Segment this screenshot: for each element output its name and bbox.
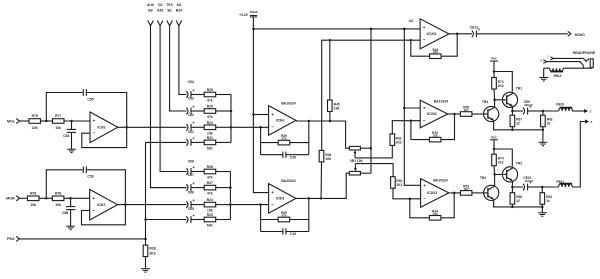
wire IC10/1 minus net from mixers xyxy=(322,39,420,152)
svg-text:2K2: 2K2 xyxy=(498,161,504,165)
svg-text:TR3: TR3 xyxy=(482,100,488,104)
wire IC9/4 feedback loop xyxy=(261,121,309,155)
wire top bias rail to IC10/1 + xyxy=(253,28,420,31)
wire IC9/2 minus feedback loop xyxy=(82,205,126,225)
wire CE10 to FB11 xyxy=(542,186,558,188)
ferrite bead FB12 xyxy=(550,68,564,78)
node IC9/1 output xyxy=(125,126,128,129)
svg-text:2K2: 2K2 xyxy=(396,183,402,187)
wire input 4Ω down to bank row xyxy=(179,26,187,95)
svg-text:4k7: 4k7 xyxy=(464,108,469,112)
svg-text:FB11: FB11 xyxy=(556,180,564,184)
wire CE13 to MONO output xyxy=(476,33,567,35)
headphone jack contact 1 xyxy=(547,55,553,60)
resistor R27 47k xyxy=(204,181,230,195)
svg-text:C62: C62 xyxy=(188,113,194,117)
capacitor C61 xyxy=(186,130,204,146)
wire TR3 collector to TR1 base node xyxy=(493,99,506,108)
svg-text:−: − xyxy=(423,196,426,201)
svg-text:+: + xyxy=(93,119,96,124)
potentiometer VR1 element B xyxy=(349,171,371,175)
svg-text:PSO: PSO xyxy=(7,237,15,241)
transistor TR3 xyxy=(482,100,499,121)
resistor R33 15k xyxy=(429,131,441,142)
svg-text:TEX: TEX xyxy=(166,3,173,7)
op-amp IC9/1 xyxy=(90,112,118,143)
svg-text:B1: B1 xyxy=(167,9,171,13)
wire IC10/1 output to CE13 xyxy=(449,33,472,36)
ground under C54 xyxy=(67,149,76,152)
wire Vcc to TR1 collector xyxy=(494,72,512,92)
svg-text:BA10324: BA10324 xyxy=(434,100,448,104)
headphone jack tip lines xyxy=(547,58,589,65)
svg-text:B29: B29 xyxy=(176,9,182,13)
wire to ground top channel xyxy=(542,130,544,143)
resistor R38 22 xyxy=(510,187,522,207)
svg-text:BA10324: BA10324 xyxy=(433,178,447,182)
svg-text:R76: R76 xyxy=(30,192,36,196)
wire IC10/3 feedback loop xyxy=(410,193,454,218)
input connector TEX B1 xyxy=(166,3,173,26)
svg-text:−: − xyxy=(271,202,274,207)
resistor R30 47k xyxy=(278,211,290,222)
wire MOL to R75 xyxy=(19,120,29,122)
svg-text:IC9/1: IC9/1 xyxy=(97,126,105,130)
svg-text:1k: 1k xyxy=(547,122,551,126)
headphone jack sleeve xyxy=(590,59,593,68)
svg-text:R24: R24 xyxy=(207,198,213,202)
wire FB10 to jack pin 2 xyxy=(572,109,591,114)
wire IC10/2 feedback loop xyxy=(411,114,455,140)
op-amp IC10/1 U3 xyxy=(409,19,449,49)
svg-text:TR1: TR1 xyxy=(516,87,522,91)
wire bank2 row4 from PSO riser xyxy=(146,219,187,221)
svg-text:C64: C64 xyxy=(188,80,194,84)
svg-text:2K2: 2K2 xyxy=(149,252,155,256)
power Vcc top xyxy=(490,57,498,78)
svg-text:A29: A29 xyxy=(157,9,163,13)
svg-text:22: 22 xyxy=(516,199,520,203)
wire feedback top C53 loop xyxy=(46,170,125,205)
op-amp IC9/2 xyxy=(90,189,118,220)
wire IC10/2 output to R50 xyxy=(448,113,460,116)
capacitor C19 xyxy=(283,228,296,236)
capacitor C56 xyxy=(62,198,75,226)
capacitor CE10 220uF xyxy=(523,176,544,190)
op-amp IC10/2 BA10324 xyxy=(420,100,448,128)
wire feedback top C55 loop xyxy=(46,93,126,128)
svg-text:47k: 47k xyxy=(281,137,286,141)
capacitor C62 xyxy=(186,113,204,131)
wire R77 to op-amp + with node xyxy=(64,120,90,123)
resistor R26 47k xyxy=(204,88,231,102)
capacitor C55 xyxy=(83,89,93,102)
svg-text:CD: CD xyxy=(158,3,163,7)
wire TR1 emitter to output node xyxy=(511,106,513,111)
svg-text:22: 22 xyxy=(516,122,520,126)
wiper VR1 B xyxy=(354,164,393,177)
wire TR2 emitter to output node xyxy=(511,181,513,187)
wire bias to IC9/4 + xyxy=(253,114,268,116)
resistor R25 47k xyxy=(204,105,231,119)
svg-text:R28: R28 xyxy=(207,165,213,169)
op-amp IC9/4 BA10324 xyxy=(269,101,296,135)
ferrite bead FB11 xyxy=(556,180,572,187)
input connector 4Ω B29 xyxy=(176,3,182,26)
svg-text:+: + xyxy=(271,190,274,195)
svg-text:MOL: MOL xyxy=(7,119,16,123)
svg-text:IC9/4: IC9/4 xyxy=(276,119,284,123)
resistor R22 15k xyxy=(204,121,231,135)
input connector AUX B3 xyxy=(147,3,155,26)
svg-text:2K2: 2K2 xyxy=(498,84,504,88)
wire input AUX down to bank row xyxy=(151,26,187,188)
transistor TR2 xyxy=(502,161,522,182)
svg-text:C61: C61 xyxy=(188,130,194,134)
capacitor C63 xyxy=(186,96,204,114)
wire IC9/3 feedback loop xyxy=(261,198,309,231)
ferrite bead FB10 xyxy=(556,103,572,112)
wire PSO riser to bank rows xyxy=(144,142,147,239)
svg-text:AUX: AUX xyxy=(147,3,155,7)
svg-text:MOR: MOR xyxy=(6,197,15,201)
svg-text:+: + xyxy=(423,183,426,188)
resistor R51 4k7 xyxy=(460,185,472,196)
svg-text:+: + xyxy=(271,112,274,117)
capacitor C66 xyxy=(186,190,204,208)
wire R50 to TR3 base xyxy=(472,113,484,115)
power Vcc bottom xyxy=(490,135,498,154)
headphone jack body line xyxy=(544,65,592,68)
output MONO xyxy=(568,31,585,37)
resistor R74 2K2 xyxy=(492,154,504,174)
svg-text:51K: 51K xyxy=(207,224,214,228)
svg-text:51K: 51K xyxy=(207,146,214,150)
svg-text:Vcc: Vcc xyxy=(491,57,497,61)
wire bank1 summing bus xyxy=(230,95,233,143)
svg-text:R22: R22 xyxy=(207,121,213,125)
svg-text:10K: 10K xyxy=(334,106,341,110)
resistor R29 47k xyxy=(278,134,290,145)
resistor R37 22 xyxy=(510,111,522,130)
resistor R76 10k xyxy=(28,192,40,208)
svg-text:10K: 10K xyxy=(325,157,332,161)
svg-text:FB10: FB10 xyxy=(556,103,564,107)
wire MOR to R76 xyxy=(19,197,27,199)
svg-text:15k: 15k xyxy=(207,131,213,135)
op-amp IC10/3 BA10324 xyxy=(421,178,449,207)
svg-text:C26: C26 xyxy=(290,155,296,159)
ground headphone jack xyxy=(539,78,548,81)
svg-text:−: − xyxy=(93,131,96,136)
svg-text:C65: C65 xyxy=(188,207,194,211)
svg-text:R27: R27 xyxy=(207,181,213,185)
ground bottom channel xyxy=(538,213,547,216)
svg-text:CE13: CE13 xyxy=(470,25,478,29)
wire bias rail to pot ends xyxy=(370,29,372,173)
svg-text:15k: 15k xyxy=(207,209,213,213)
svg-text:4Ω: 4Ω xyxy=(177,3,182,7)
svg-text:47k: 47k xyxy=(207,99,213,103)
svg-text:IC10/3: IC10/3 xyxy=(427,191,437,195)
wire to IC10/2 + input xyxy=(404,107,420,109)
svg-text:C63: C63 xyxy=(188,96,194,100)
svg-text:+3.3V: +3.3V xyxy=(239,13,249,17)
resistor R45 10K xyxy=(328,40,341,121)
capacitor C26 xyxy=(283,152,296,160)
wire input CD down to bank row xyxy=(160,26,186,172)
wire bank1 bus to IC9/4 - xyxy=(231,126,269,129)
transistor TR1 xyxy=(502,87,522,108)
svg-text:HEADPHONE: HEADPHONE xyxy=(573,51,596,55)
svg-text:IC9/2: IC9/2 xyxy=(97,203,105,207)
svg-text:220uF: 220uF xyxy=(524,103,533,107)
svg-text:BA10324: BA10324 xyxy=(281,101,295,105)
wire Vcc to TR2 collector xyxy=(494,149,512,166)
svg-text:IC9/3: IC9/3 xyxy=(276,197,284,201)
capacitor C67 xyxy=(186,173,204,191)
headphone jack contact 2 xyxy=(540,58,546,63)
wire R75 to R77 with node xyxy=(41,120,53,123)
wire bank2 rows from inputs xyxy=(151,172,187,188)
wire IC9/3 output xyxy=(296,173,349,199)
resistor R46 10K xyxy=(319,150,332,198)
wiper VR1 A xyxy=(354,146,393,158)
svg-text:R21: R21 xyxy=(207,136,213,140)
potentiometer VR1 element A xyxy=(349,146,372,150)
wire FB11 to jack pin 3 xyxy=(572,120,592,188)
resistor R43 1k xyxy=(540,187,552,207)
svg-text:IC10/1: IC10/1 xyxy=(427,32,437,36)
resistor R34 15k xyxy=(429,209,441,220)
capacitor CE13 xyxy=(470,25,481,37)
wire bank2 bus to IC9/3 - xyxy=(230,203,268,206)
label HEADPHONE xyxy=(573,51,596,55)
capacitor C65 xyxy=(186,207,204,223)
power +3.3V 100uF xyxy=(239,10,258,17)
svg-text:BA10324: BA10324 xyxy=(281,179,295,183)
svg-text:2K2: 2K2 xyxy=(396,140,402,144)
svg-text:15k: 15k xyxy=(433,134,438,138)
input PSO xyxy=(7,236,19,241)
svg-text:VR1 10k: VR1 10k xyxy=(350,159,363,163)
svg-text:TR4: TR4 xyxy=(480,176,486,180)
svg-text:R26: R26 xyxy=(207,88,213,92)
op-amp IC9/3 BA10324 xyxy=(269,179,296,213)
svg-text:B3: B3 xyxy=(148,9,152,13)
resistor R75 10K xyxy=(29,114,41,130)
resistor R23 51K xyxy=(204,213,230,227)
wire TR4 collector to TR2 base node xyxy=(493,173,506,186)
svg-text:C54: C54 xyxy=(63,134,69,138)
svg-text:R77: R77 xyxy=(55,114,61,118)
svg-text:47k: 47k xyxy=(207,115,213,119)
resistor R44 10k xyxy=(430,48,442,59)
svg-text:−: − xyxy=(423,37,426,42)
svg-text:R23: R23 xyxy=(207,213,213,217)
svg-text:TR2: TR2 xyxy=(516,161,522,165)
svg-text:10k: 10k xyxy=(55,203,61,207)
wire IC9/2 out to bank2 row3 xyxy=(118,204,187,206)
resistor R42 1k xyxy=(541,111,553,130)
input connector CD A29 xyxy=(157,3,163,26)
svg-text:C67: C67 xyxy=(188,173,194,177)
svg-text:−: − xyxy=(92,208,95,213)
svg-text:10K: 10K xyxy=(32,126,39,130)
svg-text:−: − xyxy=(423,118,426,123)
wire bottom output line xyxy=(511,186,523,189)
wire TR3 emitter rail xyxy=(494,121,545,131)
node IC9/2 output xyxy=(124,203,127,206)
wire IC10/3 output to R51 xyxy=(449,192,460,195)
svg-text:47k: 47k xyxy=(207,176,213,180)
ground top channel xyxy=(539,142,548,145)
wire R76 to R78 with node xyxy=(39,197,53,200)
wire IC9/1 out to bank1 row3 xyxy=(118,126,187,128)
svg-text:R75: R75 xyxy=(32,114,38,118)
wire R51 to TR4 base xyxy=(472,192,484,194)
ground under R39 xyxy=(141,269,150,272)
svg-text:Vcc: Vcc xyxy=(491,135,497,139)
svg-text:C55: C55 xyxy=(87,98,93,102)
svg-text:C68: C68 xyxy=(188,159,194,163)
svg-text:C66: C66 xyxy=(188,190,194,194)
label VR1 10k xyxy=(350,159,363,163)
capacitor C54 xyxy=(63,121,76,149)
capacitor C53 xyxy=(83,166,93,178)
resistor R24 15k xyxy=(204,198,230,212)
svg-text:R25: R25 xyxy=(207,105,213,109)
svg-text:47k: 47k xyxy=(281,214,286,218)
svg-text:100uF: 100uF xyxy=(249,10,258,14)
svg-text:1k: 1k xyxy=(546,199,550,203)
input MOL xyxy=(7,118,19,123)
wire IC9/1 minus feedback loop xyxy=(82,127,127,147)
wire bias to IC10/2 + xyxy=(403,29,421,185)
wire +3.3V rail vertical xyxy=(252,17,268,192)
svg-text:+: + xyxy=(423,106,426,111)
wire top output line xyxy=(511,110,523,113)
svg-text:47k: 47k xyxy=(207,192,213,196)
svg-text:R39: R39 xyxy=(149,246,155,250)
svg-text:+: + xyxy=(92,196,95,201)
resistor R73 2K2 xyxy=(492,78,504,100)
wire PSO line xyxy=(19,238,146,241)
wire IC9/4 output xyxy=(296,120,349,148)
svg-text:C56: C56 xyxy=(62,211,68,215)
resistor R28 47k xyxy=(204,165,230,179)
svg-text:10k: 10k xyxy=(55,126,61,130)
svg-text:220uF: 220uF xyxy=(525,179,534,183)
resistor R31 2K2 xyxy=(390,119,420,145)
resistor R77 10k xyxy=(53,114,65,130)
svg-text:10k: 10k xyxy=(433,50,438,54)
wire IC10/1 feedback loop xyxy=(411,34,457,56)
resistor R21 51K xyxy=(204,136,231,150)
ground under C56 xyxy=(66,226,75,229)
wire input TEX down to bank row xyxy=(170,26,187,111)
capacitor C68 xyxy=(186,159,204,175)
wire jack to ground xyxy=(543,68,545,77)
svg-text:15k: 15k xyxy=(433,212,438,216)
resistor R39 2K2 xyxy=(143,239,156,269)
svg-text:10k: 10k xyxy=(30,203,36,207)
wire bank2 summing bus xyxy=(229,172,232,220)
transistor TR4 xyxy=(480,176,499,201)
svg-text:−: − xyxy=(271,125,274,130)
resistor R32 2K2 xyxy=(391,177,421,200)
capacitor C64 xyxy=(186,80,204,98)
svg-text:+: + xyxy=(423,25,426,30)
resistor R78 10k xyxy=(52,192,64,208)
svg-text:U3: U3 xyxy=(409,19,413,23)
svg-text:FB12: FB12 xyxy=(554,74,562,78)
capacitor CE9 220uF xyxy=(523,100,544,114)
input MOR xyxy=(6,196,19,201)
svg-text:4k7: 4k7 xyxy=(464,187,469,191)
wire R78 to op-amp + with node xyxy=(64,197,90,200)
svg-text:IC10/2: IC10/2 xyxy=(427,112,437,116)
svg-text:C19: C19 xyxy=(290,232,296,236)
svg-text:C53: C53 xyxy=(87,175,93,179)
wire bank1 row4 from PSO riser xyxy=(146,141,187,143)
resistor R50 4k7 xyxy=(460,106,472,117)
wire CE9 to FB10 xyxy=(543,110,559,112)
wire TR4 emitter rail xyxy=(494,200,544,209)
svg-text:R78: R78 xyxy=(55,192,61,196)
svg-text:MONO: MONO xyxy=(575,33,585,37)
wire to ground bottom channel xyxy=(541,207,543,213)
